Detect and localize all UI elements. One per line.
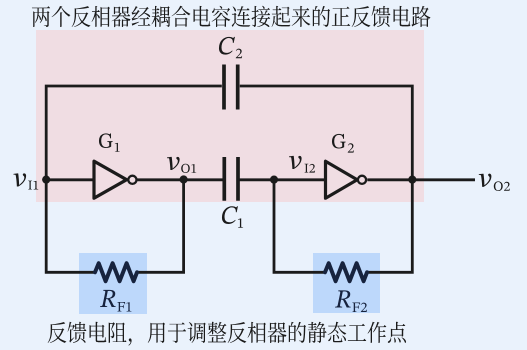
capacitor C1 [224, 157, 238, 201]
wire C1 to G2 input [238, 178, 326, 181]
wire vI2 junction down to RF2 [274, 180, 326, 272]
wire vI1 to G1 input [46, 178, 94, 181]
title: 两个反相器经耦合电容连接起来的正反馈电路 [32, 6, 431, 27]
label C2 [219, 37, 242, 58]
capacitor C2 [224, 65, 238, 110]
label vO2 [479, 174, 510, 191]
resistor RF2 [325, 263, 367, 281]
inverter G2 [326, 161, 367, 198]
highlight box RF1 [79, 253, 147, 314]
node vO2 junction [408, 176, 416, 184]
resistor RF1 [95, 263, 137, 281]
label RF1 [100, 290, 132, 312]
caption: 反馈电阻，用于调整反相器的静态工作点 [48, 322, 406, 346]
label RF2 [335, 290, 367, 312]
wire top-right rail, right vertical, bottom-right [240, 86, 412, 272]
highlight region (coupling-capacitor positive-feedback circuit) [36, 30, 424, 202]
wire G2 output to vO2 [367, 178, 475, 181]
highlight box RF2 [313, 253, 380, 313]
wire RF1 to vO1 junction [137, 180, 184, 272]
node vO1 junction [180, 175, 188, 183]
label C1 [222, 206, 243, 227]
node vI2 junction [270, 176, 278, 184]
node vI1 junction [42, 176, 50, 184]
label G1 [99, 133, 120, 151]
label vI2 [289, 156, 315, 173]
label vO1 [167, 157, 196, 173]
wire top-left rail, left vertical, bottom-left [46, 86, 222, 272]
inverter G1 [94, 161, 136, 198]
wire G1 output to C1 [137, 178, 224, 181]
label G2 [332, 134, 354, 153]
label vI1 [14, 173, 39, 189]
